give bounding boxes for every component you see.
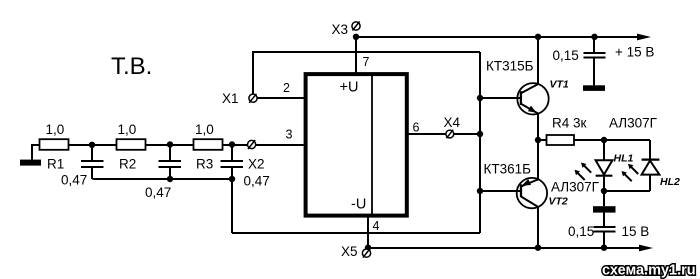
wire: positive supply rail: [356, 36, 643, 38]
svg-text:0,47: 0,47: [145, 185, 171, 200]
svg-text:3: 3: [286, 128, 293, 142]
connector X4: [446, 130, 454, 139]
input terminal bar: [20, 160, 41, 166]
svg-text:X3: X3: [332, 22, 349, 37]
junction dot X3 node: [353, 34, 359, 40]
svg-text:КТ361Б: КТ361Б: [484, 162, 532, 177]
LED HL2: [604, 140, 659, 191]
capacitor C3 0,47: [221, 145, 244, 179]
svg-text:HL2: HL2: [660, 176, 680, 188]
svg-text:X4: X4: [444, 115, 461, 130]
arrow +15V: [637, 34, 651, 41]
svg-text:7: 7: [363, 55, 370, 69]
capacitor C2 0,47: [159, 145, 182, 179]
wire: X1 to IC pin 2: [253, 97, 304, 99]
transistor VT1 KT315B: [480, 37, 549, 140]
wire: R4 to LED branch: [574, 139, 650, 141]
junction dot VT1 collector / +rail: [535, 34, 541, 40]
svg-text:1,0: 1,0: [46, 122, 65, 137]
svg-text:0,47: 0,47: [244, 174, 270, 189]
svg-text:R4 3к: R4 3к: [552, 116, 587, 131]
junction dot LED bottom node: [601, 188, 607, 194]
svg-text:4: 4: [373, 219, 380, 233]
wire: main signal line to IC pin 3: [31, 144, 304, 146]
junction dot trunk/VT2 base: [477, 188, 483, 194]
svg-text:Т.В.: Т.В.: [111, 53, 152, 80]
resistor R1: [40, 139, 69, 150]
wire: feedback line X1 to trunk: [253, 51, 480, 53]
node C junction dot: [229, 141, 235, 147]
ground bar (bottom): [593, 206, 616, 212]
svg-text:0,47: 0,47: [61, 173, 87, 188]
junction dot C5 / -rail: [601, 245, 607, 251]
svg-text:+ 15 В: + 15 В: [615, 45, 654, 60]
connector X2: [248, 140, 256, 149]
svg-text:R3: R3: [196, 157, 213, 172]
svg-text:VT1: VT1: [550, 79, 569, 91]
svg-text:R2: R2: [119, 157, 136, 172]
wire: drop from rail to lower bus: [231, 179, 233, 233]
wire: emitters to R4: [538, 139, 547, 141]
connector X1: [249, 94, 257, 103]
svg-text:2: 2: [283, 81, 290, 95]
connector X3: [352, 22, 360, 31]
HL1 emission arrows: [581, 163, 591, 173]
wire: X1 riser: [252, 51, 254, 95]
svg-text:HL1: HL1: [614, 153, 634, 165]
svg-text:-U: -U: [351, 197, 366, 213]
wire: HL bottom node to ground bar: [603, 191, 605, 206]
wire: input drop to terminal: [31, 145, 33, 160]
wire: pin 6 to trunk: [407, 133, 480, 135]
svg-text:VT2: VT2: [549, 196, 568, 208]
transistor VT2 KT361B: [480, 140, 547, 248]
wire: lower bus to output trunk: [232, 232, 480, 234]
resistor R4: [547, 135, 575, 145]
LED HL1: [596, 140, 613, 191]
junction dot X5 node: [365, 245, 371, 251]
svg-text:X5: X5: [341, 244, 358, 259]
watermark: [602, 263, 696, 279]
ground bar (top): [583, 85, 605, 91]
arrow -15V: [639, 245, 653, 252]
svg-text:R1: R1: [47, 157, 64, 172]
wire: negative supply rail: [368, 247, 641, 249]
svg-text:1,0: 1,0: [195, 122, 214, 137]
junction dot VT2 collector / -rail: [535, 245, 541, 251]
wire: capacitor bottom rail: [92, 178, 232, 180]
junction dot C4 / +rail: [591, 34, 597, 40]
node A junction dot: [89, 142, 95, 148]
wire: pin 7 to X3 node: [355, 37, 357, 73]
svg-text:6: 6: [413, 121, 420, 135]
svg-text:1,0: 1,0: [118, 122, 137, 137]
junction dot emitters node: [535, 137, 541, 143]
capacitor C1 0,47: [81, 145, 104, 179]
HL2 emission arrows: [628, 164, 638, 174]
wire: pin 4 to X5: [367, 216, 369, 248]
op-amp block U1: [306, 74, 407, 216]
svg-text:0,15: 0,15: [568, 224, 594, 239]
wire: output trunk vertical: [479, 52, 481, 233]
svg-text:X1: X1: [222, 91, 239, 106]
svg-text:АЛ307Г: АЛ307Г: [551, 180, 600, 195]
node B junction dot: [167, 141, 173, 147]
connector X5: [362, 249, 370, 258]
junction dot trunk/X4: [477, 131, 483, 137]
svg-text:АЛ307Г: АЛ307Г: [609, 116, 658, 131]
junction dot trunk/VT1 base: [477, 95, 483, 101]
svg-text:X2: X2: [248, 157, 265, 172]
capacitor C5 0,15 (bottom): [594, 213, 616, 248]
resistor R2: [117, 139, 146, 150]
junction dot on bottom rail (C2): [167, 176, 173, 182]
svg-text:15 В: 15 В: [622, 224, 650, 239]
junction dot LED top node: [601, 137, 607, 143]
U1 inner divider: [371, 74, 373, 216]
junction dot on bottom rail (C3): [229, 176, 235, 182]
svg-text:0,15: 0,15: [553, 48, 579, 63]
svg-text:схема.my1.ru: схема.my1.ru: [602, 263, 696, 279]
svg-text:+U: +U: [340, 80, 359, 96]
capacitor C4 0,15 (top): [584, 37, 606, 85]
resistor R3: [194, 139, 223, 150]
svg-text:КТ315Б: КТ315Б: [486, 59, 534, 74]
